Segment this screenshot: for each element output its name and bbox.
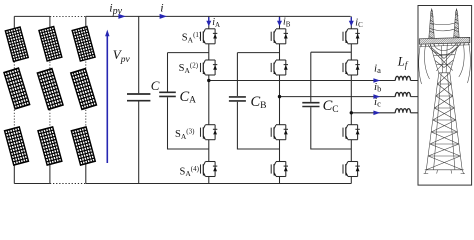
PV panel row2 col3 [71,69,97,110]
wire phase c [351,112,418,114]
wire PV string 1 top [13,16,15,30]
inductor Lf phase b [395,92,410,96]
tower body lower horizontals [428,84,460,156]
transistor S_C(3) [343,125,360,140]
inductor Lf phase a [395,76,410,80]
wire C_C bottom tap [311,107,352,149]
wire C_C top tap [311,52,352,102]
arrow i_b [373,94,380,99]
capacitor C plates [127,94,150,101]
transistor S_B(3) [271,125,288,140]
arrow V_pv head [105,30,109,37]
wire bottom DC bus dotted segment [50,183,86,185]
wire PV string 3 series dotted [85,62,87,129]
tower crossarm lower chord [419,43,470,47]
transistor S_A(4) [201,162,218,177]
tower body upper verticals [441,45,447,73]
tower right mast flag [456,8,458,11]
PV panel row2 col2 [37,69,63,110]
arrow line i_B [279,17,281,22]
svg-text:ic: ic [374,96,381,109]
wire PV string 2 series dotted [49,62,51,129]
tower body upper bracing [431,47,457,73]
transistor S_B(1) [271,29,288,44]
wire PV string 1 series dotted [13,62,15,129]
wire C_A top tap [168,53,209,92]
wire PV string 2 bottom [49,163,51,184]
tower right mast fill [454,11,460,38]
tower crossarm [419,37,470,44]
arrow line i_C [350,17,352,22]
wire phase b [280,96,418,98]
wire PV string 3 top [85,16,87,30]
PV panel row1 col1 [5,27,28,61]
transistor S_C(4) [343,162,360,177]
tower base [424,170,465,174]
arrow V_pv line [106,35,108,164]
wire bottom DC bus [14,183,351,185]
arrow i_pv [118,14,125,19]
wire PV string 2 top [49,16,51,30]
arrow i_B [277,21,282,27]
transistor S_A(2) [201,60,218,75]
capacitor C_C plates [302,103,319,107]
tower body upper rails [431,44,458,73]
tower body inner rails [434,73,455,170]
wire PV string 1 bottom [13,163,15,184]
wire leg C segments [350,16,352,183]
capacitor C_A plates [159,92,176,96]
wire C_A bottom tap [168,97,209,149]
PV panel row3 col3 [71,127,95,165]
node phase C [350,111,353,114]
tower body lower bracing [426,73,462,170]
arrow i_A [206,21,211,27]
PV panel row3 col1 [5,127,29,165]
arrow i_a [373,78,380,83]
tower conductor curves [419,43,471,84]
svg-text:C: C [151,78,160,93]
grid box [418,6,472,186]
capacitor C_B plates [229,97,246,101]
wire PV string 3 bottom [85,163,87,184]
node phase B [278,95,281,98]
transistor S_A(3) [201,125,218,140]
svg-text:i: i [160,1,163,15]
tower left mast fill [429,11,435,39]
wire top DC bus [14,15,350,17]
arrow i_C [349,21,354,27]
capacitor C wires [138,16,140,183]
arrow line i_A [208,17,210,22]
PV panel row1 col3 [72,27,95,61]
node phase A [207,79,210,82]
arrow i [160,14,167,19]
transistor S_A(1) [201,29,218,44]
PV panel row2 col1 [4,68,30,109]
wire C_B bottom tap [237,102,279,149]
wire leg B segments [279,16,281,183]
PV panel row1 col2 [39,27,62,61]
arrow i_c [373,111,380,116]
svg-text:ib: ib [374,81,381,94]
transistor S_B(4) [271,162,288,177]
transistor S_C(2) [343,60,360,75]
svg-text:ia: ia [374,62,381,75]
transistor S_C(1) [343,29,360,44]
transistor S_B(2) [271,60,288,75]
tower left mast flag [431,8,433,11]
wire C_B top tap [237,53,279,96]
tower right mast [454,11,460,38]
tower left mast [429,11,435,39]
PV panel row3 col2 [38,127,62,165]
wire top DC bus dotted segment [50,15,86,17]
tower shield wires [432,23,457,31]
wire leg A segments [208,16,210,183]
tower body lower rails [426,73,462,170]
wire phase a [209,80,418,82]
inductor Lf phase c [395,109,410,113]
